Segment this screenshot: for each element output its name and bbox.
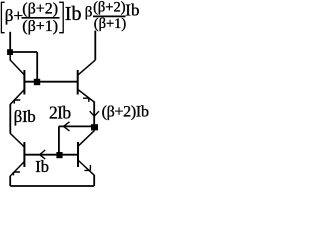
svg-text:βIb: βIb <box>14 107 36 126</box>
junction J2 <box>91 124 98 130</box>
arrow current Ib into Q3 base <box>40 150 46 159</box>
transistor Q2 <box>78 60 96 102</box>
svg-text:(β+2): (β+2) <box>22 1 58 18</box>
wire Q3 emitter to ground rail <box>9 176 11 186</box>
svg-text:(β+2): (β+2) <box>93 0 126 16</box>
junction J1 <box>34 79 40 85</box>
transistor Q1 <box>10 55 24 104</box>
wire Q2 emitter down <box>93 102 95 125</box>
svg-text:(β+2)Ib: (β+2)Ib <box>102 103 149 120</box>
svg-text:2Ib: 2Ib <box>49 103 71 123</box>
transistor Q3 <box>10 133 24 176</box>
wire corner down to base junction <box>36 52 38 79</box>
svg-text:(β+1): (β+1) <box>22 18 58 35</box>
label input current [b+(b+2)/(b+1)]Ib <box>1 1 81 35</box>
svg-text:β: β <box>85 5 93 21</box>
wire down to base junction J3 <box>58 126 60 152</box>
transistor Q4 <box>78 130 95 175</box>
wire 2Ib horizontal <box>59 125 92 127</box>
wire node to corner <box>10 51 37 53</box>
arrow current (b+2)Ib <box>90 111 99 116</box>
svg-text:(β+1): (β+1) <box>94 16 127 32</box>
node N1 <box>7 49 13 55</box>
arrow current 2Ib <box>64 122 70 131</box>
svg-text:Ib: Ib <box>35 157 49 176</box>
wire top base rail <box>24 81 77 83</box>
wire bottom base rail <box>24 154 78 156</box>
junction J3 <box>56 152 62 158</box>
svg-text:Ib: Ib <box>65 3 82 25</box>
wire bottom rail <box>10 185 94 187</box>
wire Q1 emitter down <box>9 104 11 134</box>
wire Q4 emitter to ground rail <box>93 175 95 186</box>
label output current b(b+2)/(b+1)Ib <box>85 0 140 32</box>
svg-text:β+: β+ <box>5 6 23 25</box>
wire output feed <box>94 31 96 61</box>
svg-text:Ib: Ib <box>125 1 139 20</box>
wire input feed <box>9 32 11 50</box>
